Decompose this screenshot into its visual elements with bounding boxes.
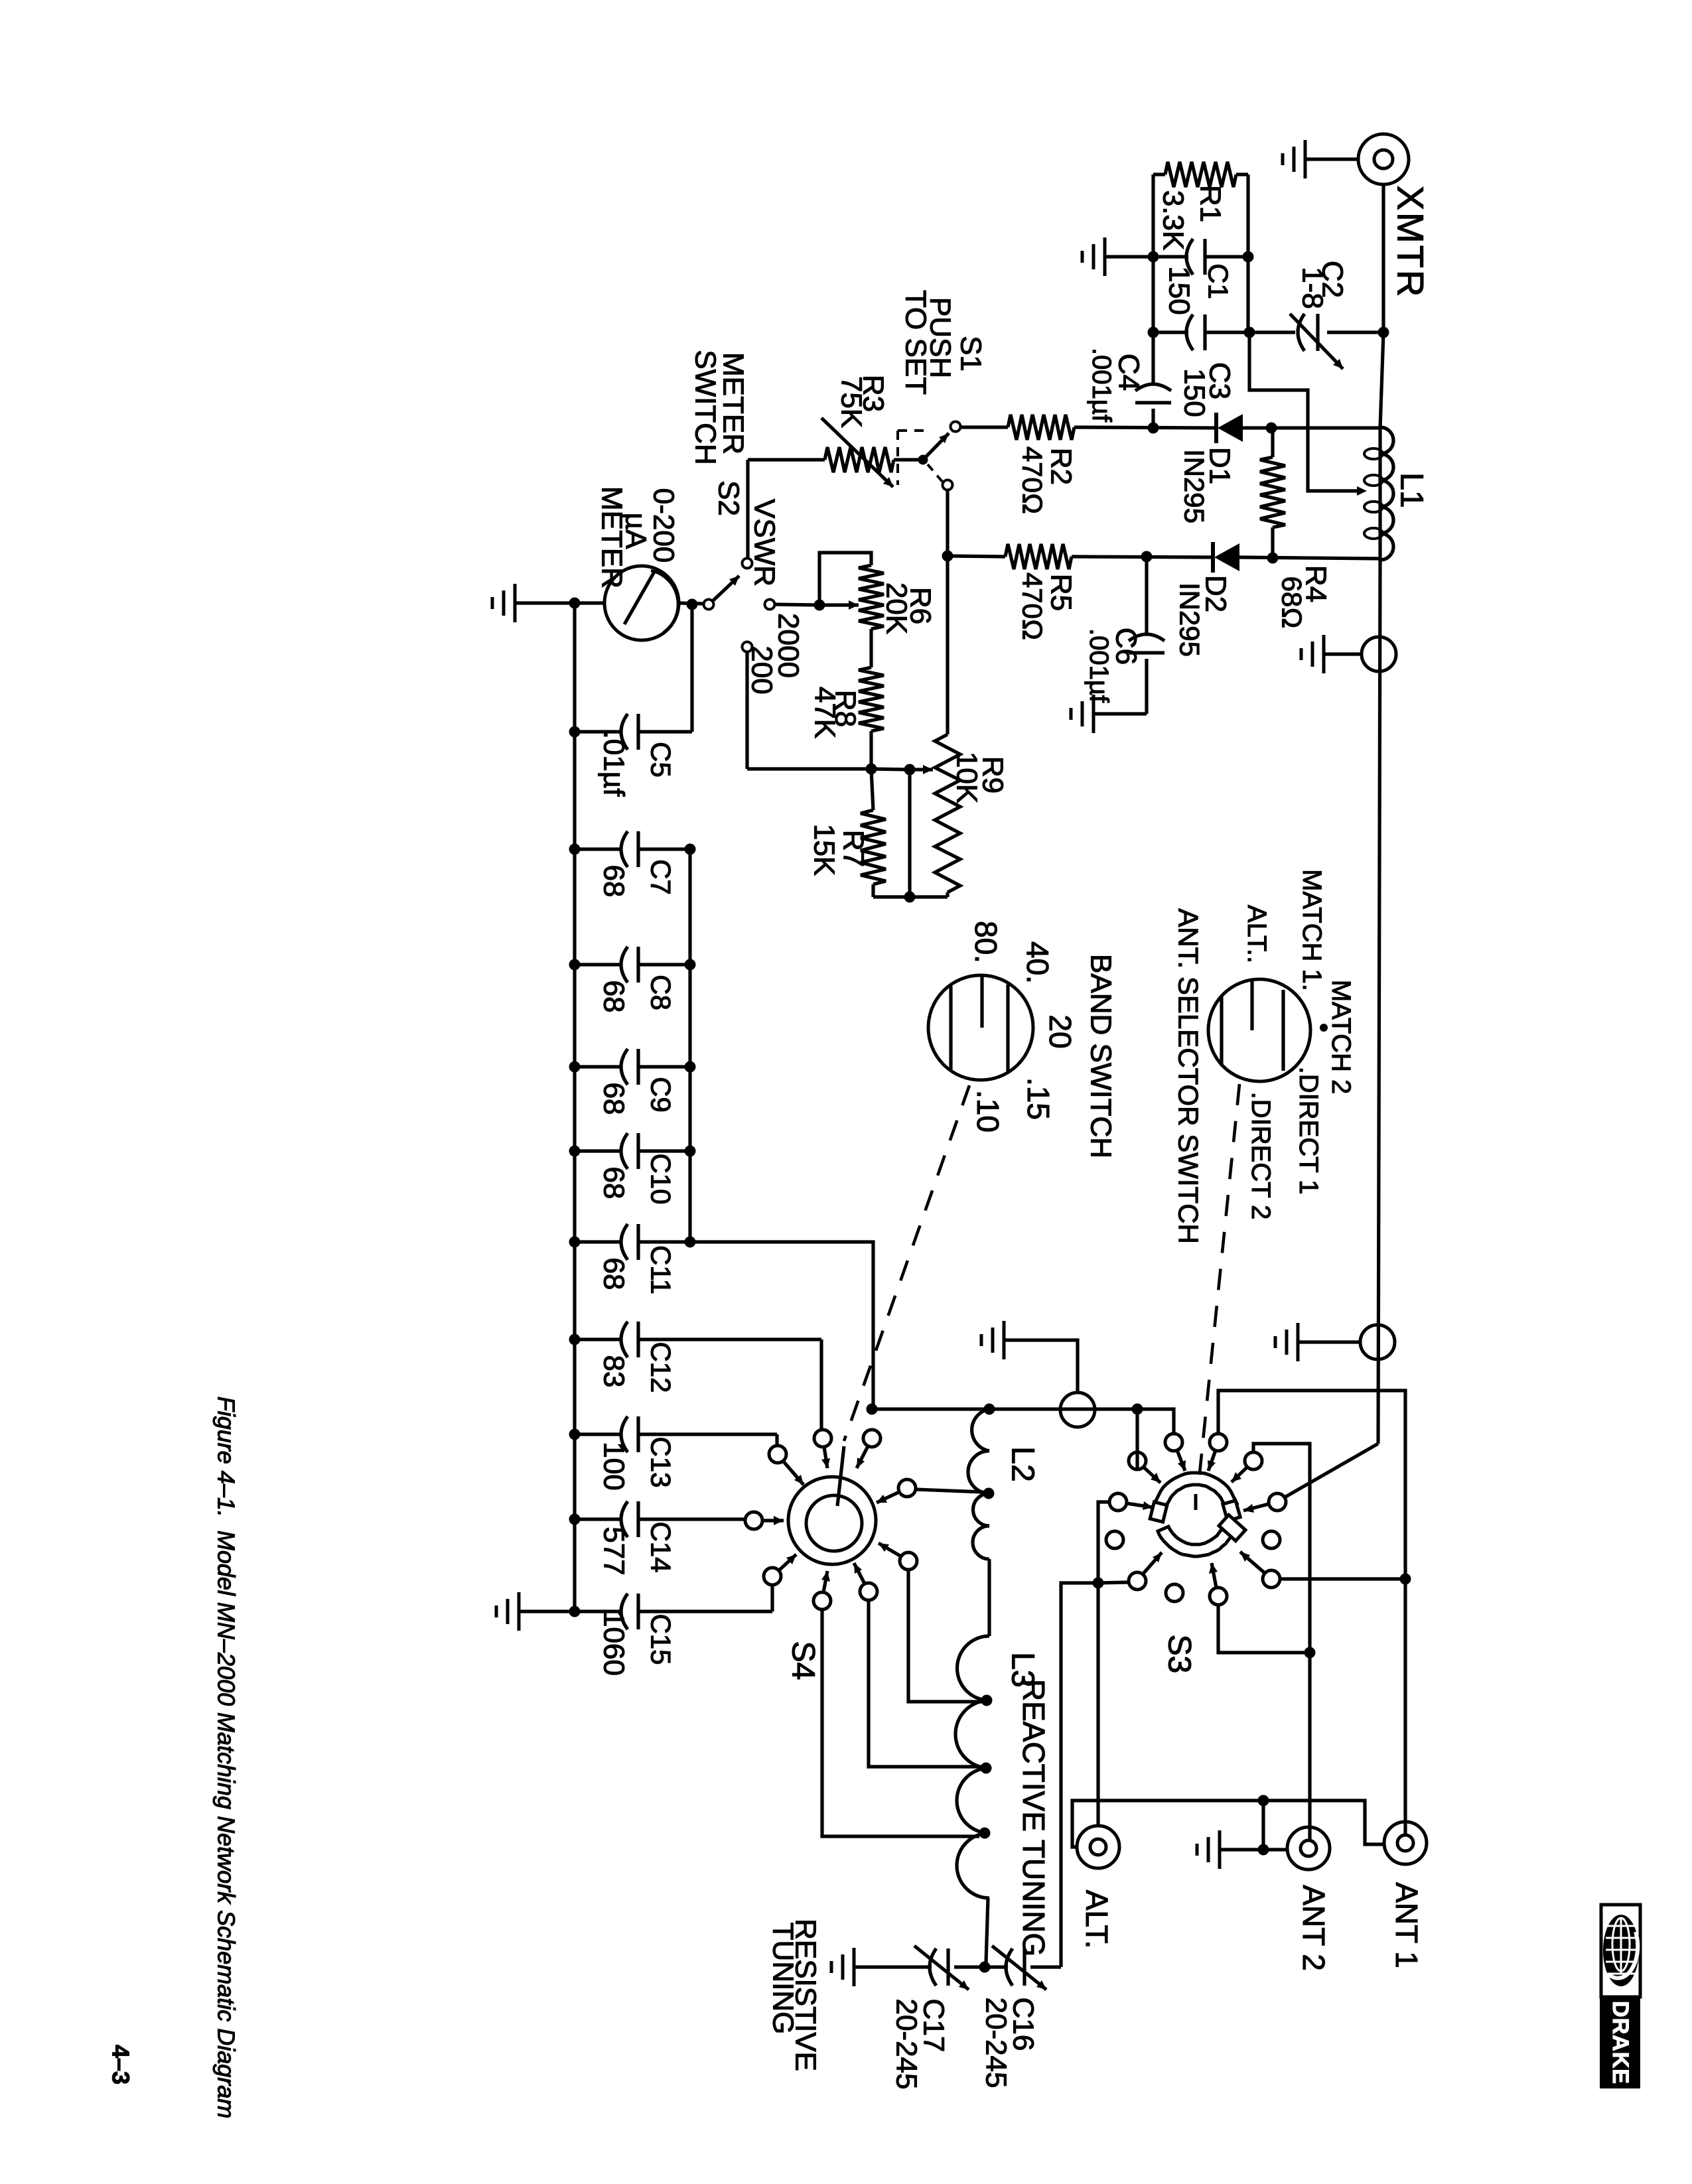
svg-text:577: 577 bbox=[598, 1527, 630, 1575]
svg-text:.01µf: .01µf bbox=[598, 731, 630, 797]
svg-text:3.3K: 3.3K bbox=[1157, 190, 1190, 251]
svg-text:4–3: 4–3 bbox=[107, 2045, 135, 2084]
svg-text:METER: METER bbox=[596, 486, 628, 588]
svg-text:.DIRECT 2: .DIRECT 2 bbox=[1246, 1092, 1275, 1220]
svg-text:S3: S3 bbox=[1162, 1635, 1197, 1674]
svg-text:R5: R5 bbox=[1045, 574, 1078, 611]
svg-text:20K: 20K bbox=[881, 582, 913, 634]
svg-text:15K: 15K bbox=[808, 824, 841, 876]
svg-text:ALT..: ALT.. bbox=[1242, 905, 1271, 963]
svg-text:ANT 2: ANT 2 bbox=[1297, 1885, 1331, 1971]
svg-text:20-245: 20-245 bbox=[980, 1997, 1013, 2088]
svg-text:C12: C12 bbox=[646, 1341, 677, 1393]
svg-text:68: 68 bbox=[598, 1258, 630, 1290]
svg-text:C5: C5 bbox=[646, 742, 677, 778]
svg-text:SWITCH: SWITCH bbox=[689, 350, 722, 465]
svg-text:68: 68 bbox=[598, 981, 630, 1013]
svg-text:100: 100 bbox=[598, 1442, 630, 1490]
svg-text:.001µf: .001µf bbox=[1087, 348, 1116, 423]
svg-text:68: 68 bbox=[598, 1167, 630, 1199]
svg-text:.15: .15 bbox=[1021, 1077, 1056, 1120]
svg-text:.10: .10 bbox=[971, 1090, 1005, 1132]
svg-text:470Ω: 470Ω bbox=[1017, 573, 1048, 640]
svg-text:20: 20 bbox=[1043, 1014, 1078, 1048]
svg-text:200: 200 bbox=[746, 646, 778, 694]
svg-text:S2: S2 bbox=[713, 480, 745, 516]
svg-text:470Ω: 470Ω bbox=[1017, 446, 1048, 514]
svg-text:C15: C15 bbox=[646, 1613, 677, 1665]
svg-text:REACTIVE TUNING: REACTIVE TUNING bbox=[1017, 1679, 1051, 1956]
svg-text:MATCH 2: MATCH 2 bbox=[1326, 980, 1356, 1095]
svg-text:40.: 40. bbox=[1021, 941, 1055, 984]
svg-text:R1: R1 bbox=[1194, 185, 1227, 222]
svg-text:47K: 47K bbox=[809, 687, 841, 738]
svg-text:83: 83 bbox=[598, 1355, 630, 1388]
svg-text:MATCH 1.: MATCH 1. bbox=[1297, 869, 1326, 991]
svg-text:150: 150 bbox=[1163, 266, 1196, 314]
svg-text:VSWR: VSWR bbox=[748, 499, 781, 586]
svg-text:1-8: 1-8 bbox=[1297, 267, 1329, 309]
svg-text:10K: 10K bbox=[951, 752, 983, 803]
svg-text:C6: C6 bbox=[1110, 628, 1143, 665]
svg-text:S1: S1 bbox=[955, 336, 987, 372]
svg-text:R2: R2 bbox=[1045, 448, 1078, 485]
svg-text:20-245: 20-245 bbox=[890, 1998, 923, 2089]
svg-text:L2: L2 bbox=[1005, 1446, 1040, 1481]
svg-text:TO SET: TO SET bbox=[900, 290, 932, 395]
svg-text:R7: R7 bbox=[837, 830, 870, 867]
svg-text:Figure 4–1. Model MN–2000 Mat: Figure 4–1. Model MN–2000 Matching Netwo… bbox=[213, 1397, 240, 2118]
svg-text:C1: C1 bbox=[1203, 263, 1234, 299]
svg-text:1060: 1060 bbox=[598, 1611, 630, 1676]
svg-text:C14: C14 bbox=[646, 1521, 677, 1572]
svg-text:68: 68 bbox=[598, 1083, 630, 1115]
svg-text:.DIRECT 1: .DIRECT 1 bbox=[1294, 1067, 1323, 1195]
svg-text:150: 150 bbox=[1178, 368, 1211, 417]
svg-text:DRAKE: DRAKE bbox=[1608, 2001, 1633, 2084]
svg-text:ANT. SELECTOR SWITCH: ANT. SELECTOR SWITCH bbox=[1173, 908, 1204, 1244]
svg-text:IN295: IN295 bbox=[1179, 449, 1210, 523]
svg-text:75K: 75K bbox=[835, 376, 868, 428]
svg-text:68Ω: 68Ω bbox=[1277, 577, 1308, 629]
svg-text:C7: C7 bbox=[646, 859, 677, 895]
svg-text:TUNING: TUNING bbox=[767, 1923, 800, 2035]
svg-text:C9: C9 bbox=[646, 1077, 677, 1113]
svg-text:S4: S4 bbox=[786, 1641, 821, 1680]
svg-text:.001µf: .001µf bbox=[1084, 628, 1113, 703]
svg-text:C11: C11 bbox=[646, 1245, 677, 1294]
svg-text:ALT.: ALT. bbox=[1080, 1890, 1114, 1949]
svg-text:68: 68 bbox=[598, 865, 630, 898]
svg-text:C4: C4 bbox=[1113, 354, 1145, 391]
svg-text:C10: C10 bbox=[646, 1153, 677, 1204]
svg-text:L1: L1 bbox=[1394, 472, 1429, 508]
svg-text:80.: 80. bbox=[969, 921, 1003, 963]
svg-text:ANT 1: ANT 1 bbox=[1389, 1882, 1424, 1968]
svg-text:C13: C13 bbox=[646, 1436, 677, 1487]
svg-text:BAND SWITCH: BAND SWITCH bbox=[1085, 954, 1117, 1158]
svg-text:IN295: IN295 bbox=[1174, 582, 1206, 657]
svg-text:XMTR: XMTR bbox=[1390, 186, 1432, 299]
svg-text:C8: C8 bbox=[646, 975, 677, 1010]
